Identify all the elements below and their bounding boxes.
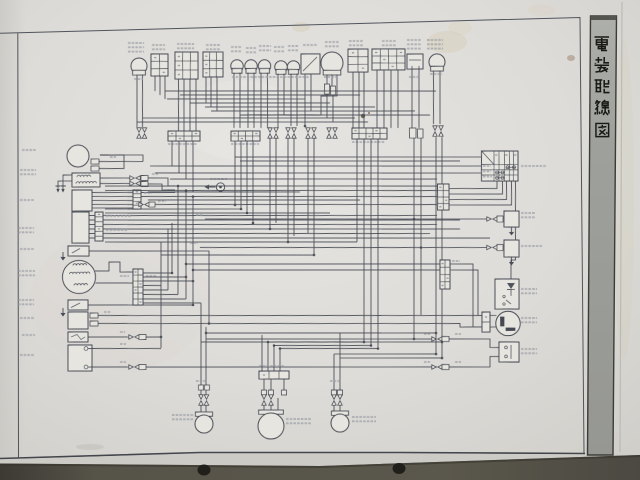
label battery minus color	[120, 361, 126, 363]
wire CDI wire 5	[92, 207, 133, 209]
label neutral switch	[18, 300, 34, 305]
junction j19	[413, 218, 416, 221]
wire speedo drop b	[296, 73, 298, 125]
dimmer switch box	[203, 52, 224, 78]
wire CDI out 2	[141, 191, 437, 202]
connector flasher L a	[137, 128, 142, 139]
ground gear switch ground	[60, 252, 65, 261]
wire magneto bus 3	[143, 280, 193, 282]
wire coil wire b2	[148, 183, 175, 190]
wire magneto bus 2	[143, 276, 186, 278]
label flasher switch	[177, 44, 194, 49]
label main switch top labels3	[514, 154, 517, 156]
water temperature gauge	[301, 54, 321, 75]
wire ground run 2	[449, 356, 499, 367]
bottom dark band	[0, 455, 640, 480]
label coil wire color	[152, 173, 158, 175]
relay connector strip	[482, 312, 491, 332]
junction j28	[234, 204, 237, 207]
wire center vert 3	[171, 223, 173, 273]
label oil level gauge	[521, 289, 537, 294]
horn connector a	[91, 159, 99, 164]
wire stop switch feed 2	[449, 338, 499, 348]
wire center vert 7	[199, 303, 202, 390]
ground thermo ground	[509, 227, 514, 236]
tail bead c	[281, 390, 286, 395]
wire lightsw drop c	[390, 70, 392, 128]
wire magneto bus 1	[143, 272, 172, 273]
wire flasher R link a	[334, 352, 436, 356]
wire rectifier wire a	[98, 308, 482, 323]
headlamp connector a	[324, 84, 329, 94]
coil connector a	[130, 176, 141, 181]
wire engstop drop c	[363, 72, 366, 139]
label speedometer lamp	[288, 46, 298, 51]
wire main sw drop 4	[449, 181, 512, 206]
junction j12	[363, 341, 366, 344]
wire lightsw drop a	[376, 70, 378, 128]
wire harness run 9	[137, 118, 368, 127]
wire harness run 2	[180, 92, 360, 99]
title strip kanji HAI	[595, 80, 610, 93]
wire CU out 5	[103, 227, 430, 240]
wire tail drop a	[261, 335, 262, 371]
flasher pilot lamp	[258, 60, 271, 74]
junction j20	[420, 246, 423, 249]
main harness connector	[437, 184, 450, 210]
wire center vert 4	[176, 186, 180, 294]
tail bead a	[261, 390, 266, 395]
wire CU out 6	[103, 231, 490, 246]
label ground color	[424, 361, 430, 363]
label rear stop switch	[521, 349, 537, 354]
wire harness run 1	[165, 86, 436, 96]
wire control unit pin wire 2	[89, 219, 95, 221]
rearR bead b	[337, 390, 342, 395]
wire bus line 2	[155, 167, 481, 180]
junction j30	[269, 228, 272, 231]
connector flasher R b	[439, 126, 444, 137]
wire rear flasher L drop a	[200, 390, 202, 396]
connector block A	[168, 130, 200, 141]
wire tail lead a2	[263, 405, 265, 412]
wire CU out 4	[103, 222, 460, 236]
junction j8	[192, 304, 195, 307]
wire bus line 7	[148, 196, 360, 204]
wire CDI out 3	[155, 199, 437, 210]
junction j21	[435, 332, 438, 335]
wire drop rowC 1	[355, 139, 359, 242]
wire bus line 3	[170, 174, 437, 184]
label control unit	[18, 228, 34, 233]
label magneto strip colors R	[146, 275, 156, 277]
label ignition coil	[20, 170, 36, 175]
wire bus line 6	[148, 189, 300, 195]
label rectifier wire colors	[104, 311, 110, 313]
label CU wire colors2	[106, 229, 127, 232]
wire bus line 3c	[240, 157, 460, 165]
wire rectifier wire b	[98, 316, 482, 334]
shadow under page bottom	[0, 454, 640, 467]
wire coil wire b	[100, 183, 131, 184]
binder hole left	[198, 465, 211, 476]
horn	[67, 145, 89, 167]
wire bus line 10	[105, 237, 357, 247]
label CDI wire colors	[144, 192, 152, 194]
wire drop rowA 1	[171, 141, 174, 166]
wire oil lamp drop b	[253, 73, 255, 129]
wire main sw drop 1	[449, 181, 497, 189]
rearL connector b	[204, 395, 209, 406]
schematic group	[13, 35, 551, 444]
label flasher pilot lamp	[259, 46, 271, 51]
label flasher relay	[521, 318, 537, 323]
faint right page edge line	[620, 2, 622, 452]
wire CU out 3	[103, 218, 437, 231]
label rear flasher R label	[352, 417, 376, 422]
label connector row colors A	[168, 143, 196, 144]
label right conn colors	[452, 260, 460, 262]
label horn wire color	[110, 156, 116, 158]
wire coil wire a2	[148, 177, 175, 186]
fuse	[68, 332, 88, 343]
rearR bead a	[331, 390, 336, 395]
rectifier connector a	[90, 313, 98, 318]
wire temp drop a	[304, 74, 306, 126]
main switch	[481, 150, 519, 181]
wire headlamp feed run	[240, 113, 321, 116]
label dimmer switch	[206, 45, 220, 50]
horn connector b	[91, 166, 99, 171]
spark plug pair	[55, 175, 72, 193]
wire CU out 1	[103, 209, 437, 222]
wire pilot drop a	[260, 72, 262, 128]
regulator connector a	[487, 245, 498, 250]
junction j27	[246, 212, 249, 215]
wire drop rowC 2	[360, 139, 368, 342]
label horn	[22, 149, 36, 152]
wire horn wire b	[99, 155, 125, 169]
label rearL wire colors	[196, 380, 206, 382]
wire headlamp out b	[332, 95, 333, 122]
wire rearR lead a	[333, 405, 335, 412]
meter lamp	[275, 61, 288, 75]
magneto connector strip	[132, 269, 143, 305]
rear flasher lamp R	[331, 411, 349, 433]
wire tail link b	[274, 344, 371, 348]
binder hole right	[393, 463, 406, 474]
rearL connector a	[199, 395, 204, 406]
label flasherL wire colors	[134, 78, 143, 80]
junction j33	[304, 125, 307, 128]
CDI unit	[72, 190, 93, 212]
label regulator wire color	[190, 242, 198, 244]
wire coil wire a	[100, 177, 131, 178]
connector flasher L b	[142, 128, 147, 139]
wire flasher sw drop c	[189, 79, 191, 131]
rear flasher lamp L	[195, 412, 213, 434]
label thermo unit	[521, 213, 535, 218]
connector row c5	[306, 128, 311, 139]
front stop switch box	[407, 54, 424, 70]
wire drop temp conn	[312, 138, 316, 255]
wire main sw drop 5	[509, 181, 517, 279]
junction j1	[177, 185, 180, 188]
connector block C	[352, 127, 387, 139]
label main switch LOCK	[483, 175, 492, 177]
wire drop meter conn 2	[292, 138, 296, 236]
light switch box	[372, 48, 406, 70]
wire tail link c	[280, 347, 378, 351]
coil connector d	[141, 181, 148, 186]
wire tail drop b	[267, 342, 268, 371]
wire meter lamp drop b	[283, 73, 285, 115]
wire drop flasher R 2	[438, 137, 446, 358]
wire control unit pin wire 1	[89, 214, 95, 216]
rectifier connector b	[90, 321, 98, 326]
rear stop switch	[499, 342, 520, 363]
CDI connector a	[139, 202, 150, 207]
label main switch top labels	[495, 154, 498, 156]
junction j22	[370, 344, 373, 347]
wire speedo drop a	[290, 74, 292, 126]
thermo unit	[504, 211, 520, 228]
label tail stop lamp label	[286, 419, 311, 424]
junction j13	[205, 332, 208, 335]
junction j26	[240, 208, 243, 211]
wire drop rowB 2	[240, 141, 243, 209]
wire main sw drop 3	[449, 181, 507, 201]
connector front stop b	[417, 129, 423, 138]
wire horn bus a	[100, 154, 143, 162]
wire rear flasher R drop a	[333, 354, 334, 390]
wire harness run 6	[211, 107, 415, 115]
title strip	[588, 16, 617, 455]
wire drop pilot conn 2	[274, 138, 277, 223]
junction j10	[514, 218, 517, 221]
wire neutral lamp drop b	[239, 73, 241, 129]
wire headlamp drop b	[331, 74, 333, 86]
wire drop rowA 4	[192, 141, 194, 192]
wire neutral lamp drop a	[233, 72, 235, 128]
rearR connector b	[338, 395, 343, 406]
wire horn sw drop b	[159, 76, 162, 95]
wire harness run 4	[190, 100, 330, 105]
junction j4	[171, 272, 174, 275]
title strip kanji DEN	[595, 37, 610, 51]
wire bus regulator	[200, 242, 489, 253]
tail connector a	[262, 395, 267, 406]
label main switch ON	[483, 165, 491, 167]
wire tail drop c	[273, 345, 276, 371]
wire magneto bus 4	[143, 284, 161, 287]
label meter lamp	[274, 47, 284, 52]
junction j7	[160, 336, 163, 339]
wire drop rowC 4	[374, 139, 382, 347]
label CDI magneto	[18, 271, 35, 276]
junction j32	[313, 254, 316, 257]
wire magneto out b	[95, 282, 133, 283]
wire flasherR drop a	[432, 70, 434, 123]
label connector row colors B	[231, 143, 259, 144]
junction j25	[192, 269, 195, 272]
wire headlamp drop a	[326, 75, 328, 85]
wire magneto bus 5	[143, 289, 168, 292]
flasher switch box	[174, 52, 198, 80]
wire rearL lead b	[205, 405, 207, 412]
wire drop front stop 2	[418, 138, 425, 315]
wire flasher R link b	[340, 356, 442, 360]
ground run connector b	[442, 364, 449, 369]
junction j18	[279, 347, 282, 350]
wire lightsw drop b	[383, 70, 385, 128]
wire CDI wire 2	[92, 196, 133, 198]
wire engstop drop a	[352, 72, 354, 128]
wire center vert 5	[184, 190, 188, 298]
wire drop speedo conn	[306, 138, 310, 233]
ground run connector	[432, 365, 443, 370]
junction j34	[441, 341, 444, 344]
thermo connector b	[497, 216, 503, 222]
tail bead b	[268, 390, 273, 395]
wire CDI wire 4	[92, 204, 133, 206]
thermo connector a	[487, 217, 498, 222]
junction j17	[273, 344, 276, 347]
frame bottom edge / page bottom line	[0, 453, 585, 459]
wire bus line 8	[105, 206, 241, 211]
wire CDI out 1	[141, 192, 175, 193]
label magneto strip colors L	[120, 275, 129, 277]
neutral indicator lamp	[231, 60, 244, 74]
label front flasher L	[128, 43, 144, 52]
wire rear flasher R drop b	[339, 333, 341, 390]
headlamp	[321, 52, 343, 76]
wire dimmer drop c	[216, 77, 217, 111]
label stop feed color a	[424, 333, 430, 335]
label rearR wire colors	[330, 380, 340, 382]
ground neutral switch ground	[60, 308, 65, 317]
oil indicator lamp	[245, 60, 258, 74]
coil connector c	[141, 175, 148, 180]
junction j16	[267, 341, 270, 344]
label CDI wire colors 2	[158, 200, 166, 202]
wire right conn out 2	[450, 269, 479, 316]
label flasherR wire colors	[430, 73, 442, 75]
battery minus connector a	[129, 365, 140, 370]
label oil lamp	[246, 48, 256, 53]
wire magneto bus 6	[143, 294, 178, 295]
wire flasher L drop b	[141, 75, 143, 127]
tail lamp connector row	[259, 370, 289, 379]
ground regulator ground	[509, 257, 514, 266]
label ground color b	[455, 361, 461, 363]
stop feed connector a	[432, 337, 443, 342]
wire horn sw drop a	[154, 76, 157, 91]
title strip kanji SEN	[595, 100, 609, 115]
wire lightsw drop d	[397, 70, 399, 128]
label horn switch	[152, 45, 165, 50]
label 5th gear switch	[20, 248, 34, 251]
wire flasher sw drop a	[177, 79, 179, 131]
label headlamp wire colors	[324, 76, 338, 79]
connector row c1	[268, 128, 273, 139]
wire drop rowA 3	[185, 141, 186, 179]
wire bus line 9	[105, 209, 330, 218]
wire battery ground run	[146, 361, 437, 372]
wire bus line 4	[105, 180, 437, 193]
junction j9	[208, 322, 211, 325]
wire meter lamp drop a	[277, 74, 279, 129]
wire engstop drop b	[358, 72, 360, 128]
title strip kanji ZU	[596, 123, 609, 136]
headlamp connector b	[330, 86, 335, 95]
title strip kanji SOU	[595, 57, 610, 72]
wire control unit pin wire 5	[89, 232, 95, 234]
wire bus line 1	[150, 160, 481, 173]
wire long bus 342	[201, 337, 442, 346]
wire magneto bus 7	[143, 298, 186, 300]
wire drop pilot conn 1	[268, 138, 271, 229]
wire harness run 8	[142, 114, 354, 122]
junction j3	[192, 195, 195, 198]
regulator	[504, 240, 520, 258]
wire flasher L drop a	[136, 74, 138, 126]
main switch contacts	[495, 166, 516, 180]
wire tail link a	[268, 340, 364, 344]
wire gear switch wire	[89, 249, 210, 326]
label connector row colors C	[352, 141, 384, 142]
CDI magneto	[62, 260, 96, 294]
battery minus connector b	[139, 364, 146, 369]
wire battery plus wire	[88, 347, 161, 350]
label neutral lamp	[231, 47, 241, 52]
junction j6	[192, 280, 195, 283]
wire drop rowA 2	[178, 141, 179, 173]
label main switch top labels2	[505, 154, 508, 156]
connector row c4	[292, 128, 297, 139]
connector row c6	[312, 128, 317, 139]
wire horn wire a	[99, 161, 143, 163]
wire dimmer drop a	[205, 77, 208, 103]
label main switch	[521, 165, 546, 168]
rearR connector a	[332, 395, 337, 406]
wire drop rowC 3	[367, 139, 375, 345]
wire bus line 5	[105, 184, 437, 197]
connector row c2	[274, 128, 279, 139]
CDI connector strip	[133, 190, 142, 209]
label rectifier	[20, 317, 34, 320]
label CU wire colors	[106, 215, 131, 218]
connector front stop a	[409, 128, 416, 138]
wire control unit pin wire 6	[89, 237, 95, 239]
wire front stop drop b	[418, 66, 420, 128]
label engine stop switch	[349, 41, 363, 50]
wire tail lead a	[263, 379, 265, 390]
right harness connector	[439, 260, 450, 289]
junction j14	[435, 353, 438, 356]
wire tail lead c	[283, 379, 285, 390]
wire bus thermo	[205, 214, 489, 225]
rearL bead b	[204, 385, 209, 390]
junction j2	[185, 189, 188, 192]
label headlamp	[325, 42, 339, 47]
wire bus line 11	[161, 252, 314, 258]
front flasher lamp L	[131, 58, 147, 75]
wire neutral switch wire	[88, 303, 193, 307]
wire right conn wire 2	[193, 265, 440, 274]
speedometer lamp	[287, 61, 300, 75]
front flasher lamp R	[429, 54, 445, 71]
